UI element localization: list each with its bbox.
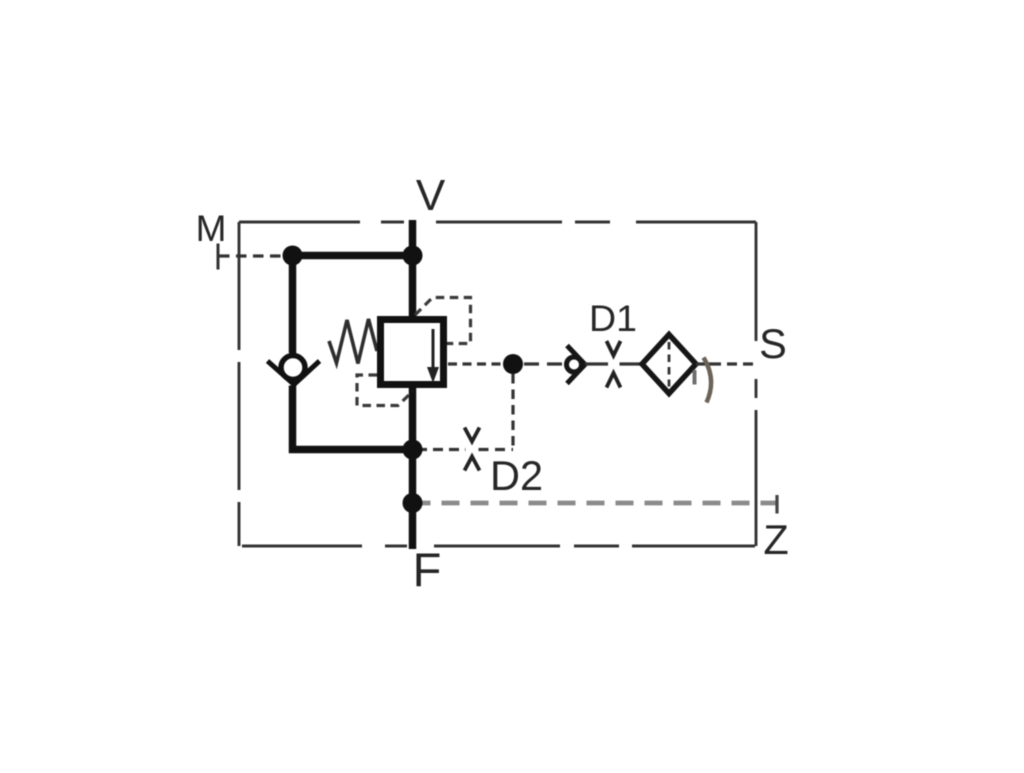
- svg-text:D1: D1: [589, 297, 637, 339]
- svg-text:D2: D2: [490, 452, 543, 499]
- svg-text:Z: Z: [763, 516, 788, 563]
- svg-text:F: F: [413, 543, 442, 596]
- svg-text:S: S: [759, 320, 787, 367]
- svg-text:V: V: [416, 171, 446, 220]
- svg-text:M: M: [196, 208, 227, 249]
